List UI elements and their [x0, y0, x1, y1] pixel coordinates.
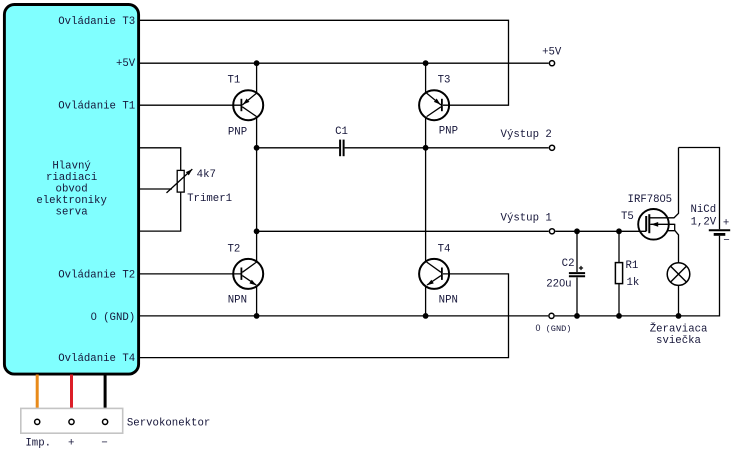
- node R1 bottom GND: [616, 313, 622, 319]
- wire T5 source down to lamp: [668, 231, 679, 263]
- wire plus red: [70, 375, 73, 419]
- svg-text:Ovládanie T4: Ovládanie T4: [58, 353, 135, 365]
- wire impulse orange: [36, 375, 39, 419]
- node T2 collector Výstup 1: [254, 228, 260, 234]
- wire minus black: [104, 375, 107, 419]
- terminal 0 (GND): [549, 313, 554, 318]
- node T4 emitter GND: [423, 313, 429, 319]
- svg-text:T3: T3: [438, 74, 451, 86]
- trimmer Trimer1 4k7: [167, 167, 194, 192]
- svg-text:C1: C1: [335, 126, 348, 138]
- svg-text:Výstup 2: Výstup 2: [501, 129, 552, 141]
- node R1 top: [616, 228, 622, 234]
- capacitor C2 220u: [569, 266, 585, 276]
- wire C2 bottom: [576, 277, 578, 316]
- wire lamp bottom: [678, 285, 680, 316]
- svg-text:NPN: NPN: [228, 294, 247, 306]
- node T1 collector C1: [254, 145, 260, 151]
- wire trimmer bottom: [139, 192, 181, 231]
- svg-text:riadiaci: riadiaci: [46, 172, 97, 184]
- node C2 top: [574, 228, 580, 234]
- wire Výstup 1 to T5 gate: [555, 230, 646, 232]
- svg-text:T1: T1: [227, 74, 240, 86]
- svg-text:T4: T4: [438, 244, 451, 256]
- wire C1 left: [257, 147, 339, 149]
- svg-text:IRF7805: IRF7805: [628, 193, 673, 206]
- node C2 bottom GND: [574, 313, 580, 319]
- wire C2 top: [576, 231, 578, 272]
- svg-text:Ovládanie T2: Ovládanie T2: [58, 269, 135, 281]
- node lamp bottom GND: [676, 313, 682, 319]
- node T2 emitter GND: [254, 313, 260, 319]
- node T3 collector Výstup 2: [423, 145, 429, 151]
- svg-text:+: +: [723, 218, 729, 230]
- svg-text:obvod: obvod: [56, 183, 88, 195]
- svg-text:+5V: +5V: [542, 47, 562, 59]
- wire T5 bulk join: [651, 224, 675, 230]
- wire Výstup 1 row: [257, 230, 549, 232]
- wire R1 top: [618, 231, 620, 262]
- svg-text:−: −: [723, 235, 729, 247]
- wire +5V rail: [139, 62, 549, 64]
- wire Ovládanie T1 to T1 base: [139, 104, 241, 106]
- svg-text:+5V: +5V: [116, 58, 136, 70]
- svg-text:0 (GND): 0 (GND): [91, 311, 136, 324]
- servo connector J1: [21, 408, 123, 433]
- wire trimmer wiper: [139, 188, 172, 190]
- node T1 emitter +5V: [254, 60, 260, 66]
- lamp glow plug: [667, 263, 690, 286]
- svg-text:PNP: PNP: [228, 126, 247, 138]
- svg-text:+: +: [68, 438, 74, 450]
- svg-text:T5: T5: [621, 211, 634, 223]
- resistor R1 1k: [615, 263, 622, 284]
- wire T3 emitter up: [425, 63, 427, 93]
- svg-text:NiCd: NiCd: [690, 204, 716, 216]
- wire GND rail left: [139, 315, 548, 317]
- transistor T2 NPN: [233, 259, 263, 289]
- wire trimmer top: [139, 148, 181, 171]
- svg-text:1k: 1k: [627, 277, 640, 289]
- wire T4 emitter down: [425, 287, 427, 316]
- wire R1 bottom: [618, 284, 620, 316]
- svg-text:Hlavný: Hlavný: [52, 160, 91, 172]
- wire C1 right to Výstup 2: [345, 147, 549, 149]
- svg-text:220u: 220u: [546, 278, 571, 291]
- svg-text:Servokonektor: Servokonektor: [127, 417, 210, 429]
- svg-text:T2: T2: [227, 244, 240, 256]
- wire GND rail right: [555, 236, 720, 316]
- svg-text:−: −: [101, 438, 107, 450]
- svg-text:C2: C2: [562, 258, 575, 270]
- wire T4 base to Ovládanie T4: [139, 274, 509, 358]
- block title text: [36, 160, 107, 218]
- wire T1 emitter up: [256, 63, 258, 93]
- svg-text:4k7: 4k7: [197, 169, 216, 181]
- svg-text:PNP: PNP: [439, 126, 458, 138]
- svg-text:Výstup 1: Výstup 1: [501, 212, 552, 224]
- terminal Výstup 2: [549, 145, 554, 150]
- wire battery plus to top rail: [679, 148, 720, 230]
- svg-text:1,2V: 1,2V: [691, 216, 717, 228]
- svg-text:sviečka: sviečka: [656, 335, 701, 347]
- transistor T3 PNP: [419, 90, 449, 120]
- servo connector wires: [37, 375, 105, 419]
- svg-text:0 (GND): 0 (GND): [536, 323, 572, 334]
- transistor T1 PNP: [233, 90, 263, 120]
- svg-text:NPN: NPN: [439, 294, 458, 306]
- svg-text:Ovládanie T1: Ovládanie T1: [58, 101, 135, 113]
- mosfet T5 IRF7805: [638, 209, 675, 240]
- svg-text:Trimer1: Trimer1: [187, 193, 232, 205]
- svg-text:elektroniky: elektroniky: [36, 195, 107, 207]
- wire Ovládanie T2 to T2 base: [139, 273, 241, 275]
- wire T2 emitter down: [256, 287, 258, 316]
- svg-text:Žeraviaca: Žeraviaca: [650, 321, 708, 335]
- svg-text:serva: serva: [56, 206, 89, 218]
- svg-text:Imp.: Imp.: [25, 438, 51, 450]
- wire T5 drain up: [649, 148, 678, 218]
- wire Ovládanie T3 to T3 base: [139, 20, 509, 105]
- servo controller block U1: [4, 5, 138, 375]
- node T3 emitter +5V: [423, 60, 429, 66]
- capacitor C1: [340, 140, 344, 157]
- terminal Výstup 1: [549, 229, 554, 234]
- svg-text:Ovládanie T3: Ovládanie T3: [58, 16, 135, 28]
- svg-text:R1: R1: [626, 260, 639, 272]
- wire T3 collector to T4 collector column: [425, 117, 427, 262]
- transistor T4 NPN: [419, 259, 449, 289]
- battery NiCd 1,2V: [709, 230, 730, 234]
- wire T1 collector to T2 collector column: [256, 117, 258, 262]
- terminal +5V: [549, 61, 554, 66]
